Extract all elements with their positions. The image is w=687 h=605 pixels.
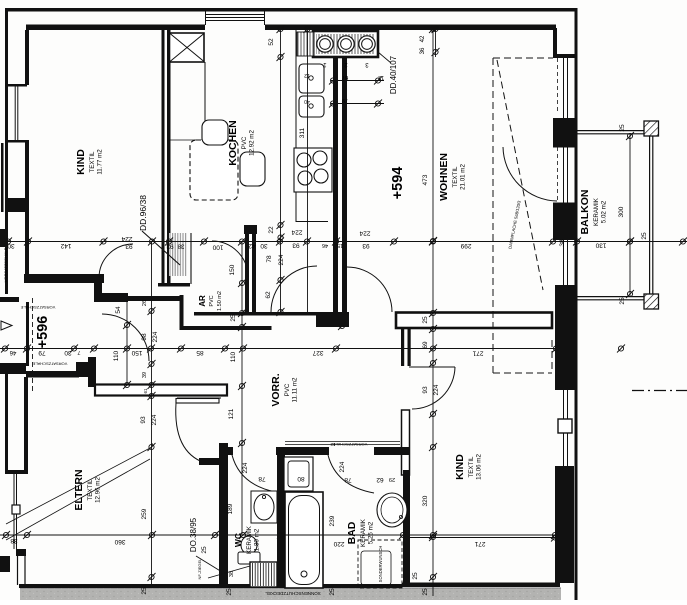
svg-text:26: 26 [142,300,148,306]
svg-text:30: 30 [64,349,72,356]
svg-text:13.06 m2: 13.06 m2 [476,454,483,480]
svg-text:TEXTIL: TEXTIL [87,479,94,501]
svg-text:TEXTIL: TEXTIL [89,151,96,173]
svg-text:DD.96/38: DD.96/38 [138,195,148,231]
svg-text:46: 46 [9,349,16,355]
svg-text:271: 271 [474,540,485,547]
svg-text:38: 38 [177,243,184,249]
svg-text:+596: +596 [35,316,51,349]
svg-text:25: 25 [641,232,648,240]
svg-text:NF-ZIEGEL: NF-ZIEGEL [197,558,202,580]
svg-text:52: 52 [268,38,275,46]
svg-text:WC: WC [233,533,243,547]
svg-text:224: 224 [339,461,346,472]
svg-text:79: 79 [38,349,46,356]
svg-text:KERAMIK: KERAMIK [360,518,367,547]
svg-text:5.26 m2: 5.26 m2 [368,521,375,544]
svg-text:BALKON: BALKON [579,190,591,235]
svg-text:PVC: PVC [209,295,215,306]
svg-text:25: 25 [422,316,429,324]
svg-text:150: 150 [229,264,236,275]
svg-text:300: 300 [618,206,625,217]
svg-text:259: 259 [141,508,148,519]
svg-text:25: 25 [412,572,419,580]
svg-text:142: 142 [60,242,71,249]
svg-text:1.50 m2: 1.50 m2 [217,291,223,311]
svg-text:AR: AR [198,295,207,307]
svg-text:BAD: BAD [346,521,358,544]
svg-text:38: 38 [10,537,18,544]
svg-text:40: 40 [304,98,310,104]
svg-text:SONDERWUNSCH: SONDERWUNSCH [378,546,383,583]
svg-text:61: 61 [143,388,148,394]
svg-text:79: 79 [341,97,348,103]
svg-text:15: 15 [337,242,343,248]
svg-text:25: 25 [329,588,336,596]
svg-text:25: 25 [422,588,429,596]
svg-text:VORSATZSCHALE: VORSATZSCHALE [3,247,8,282]
svg-text:39: 39 [142,372,148,378]
svg-text:DD.40/107: DD.40/107 [389,55,398,94]
svg-text:SONNENSCHUTZDECKEL: SONNENSCHUTZDECKEL [265,591,321,596]
svg-text:KIND: KIND [454,454,466,480]
svg-text:25: 25 [141,587,148,595]
svg-text:121: 121 [228,408,235,419]
svg-text:54: 54 [115,306,122,314]
svg-text:189: 189 [227,503,234,514]
svg-text:224: 224 [291,229,302,236]
svg-text:224: 224 [242,462,249,473]
svg-text:100: 100 [212,244,223,251]
svg-text:KOCHEN: KOCHEN [227,120,239,166]
svg-text:224: 224 [152,331,159,342]
svg-text:KIND: KIND [75,149,87,175]
svg-text:+594: +594 [390,167,406,200]
svg-text:150: 150 [131,349,142,356]
svg-text:42: 42 [420,35,426,42]
svg-text:30: 30 [7,242,15,249]
svg-text:473: 473 [422,174,429,185]
svg-text:TEXTIL: TEXTIL [452,166,459,188]
svg-text:DO.38/95: DO.38/95 [189,517,198,552]
svg-text:78: 78 [344,476,352,483]
svg-text:12: 12 [378,74,384,80]
svg-text:VORR.: VORR. [270,373,282,406]
svg-text:38: 38 [229,571,235,577]
svg-text:62: 62 [376,476,384,483]
svg-text:25: 25 [226,588,233,596]
svg-text:69: 69 [422,341,429,349]
svg-text:46: 46 [322,242,328,248]
svg-text:36: 36 [420,47,426,54]
svg-text:80: 80 [297,475,305,482]
svg-text:271: 271 [472,350,483,357]
svg-text:93: 93 [140,416,147,424]
svg-text:PVC: PVC [284,383,291,396]
svg-text:25: 25 [230,314,237,322]
svg-text:224: 224 [359,230,370,237]
svg-text:360: 360 [114,538,125,545]
svg-text:29: 29 [389,476,395,482]
svg-text:VORSATZSCHALE: VORSATZSCHALE [332,442,367,447]
svg-text:224: 224 [278,254,285,265]
svg-text:TEXTIL: TEXTIL [468,456,475,478]
svg-text:42: 42 [248,242,256,249]
svg-text:25: 25 [619,297,626,305]
svg-text:130: 130 [595,242,606,249]
svg-text:5.02 m2: 5.02 m2 [601,200,608,223]
svg-text:110: 110 [230,351,237,362]
svg-text:93: 93 [292,242,300,249]
svg-text:311: 311 [299,127,306,138]
svg-text:224: 224 [121,235,132,242]
svg-text:78: 78 [258,475,266,482]
svg-text:93: 93 [362,242,370,249]
svg-text:98: 98 [141,333,148,341]
svg-text:KERAMIK: KERAMIK [593,197,600,226]
svg-text:327: 327 [312,349,323,356]
svg-text:320: 320 [422,495,429,506]
svg-text:93: 93 [125,243,133,250]
svg-text:11.11 m2: 11.11 m2 [292,377,299,402]
svg-text:25: 25 [619,124,626,132]
svg-text:WOHNEN: WOHNEN [438,153,450,201]
svg-text:299: 299 [460,242,471,249]
svg-text:110: 110 [113,350,120,361]
svg-text:239: 239 [329,515,336,526]
svg-text:85: 85 [196,349,204,356]
svg-text:224: 224 [433,384,440,395]
svg-text:12: 12 [304,72,310,78]
svg-text:38: 38 [559,239,566,247]
svg-text:67: 67 [341,74,348,80]
svg-text:93: 93 [166,243,174,250]
svg-text:7: 7 [77,349,80,355]
svg-text:30: 30 [260,242,268,249]
svg-text:VORSATZSCHALE: VORSATZSCHALE [32,362,67,367]
svg-text:12.96 m2: 12.96 m2 [95,477,102,503]
svg-text:62: 62 [265,291,272,299]
svg-text:21.01 m2: 21.01 m2 [460,164,467,190]
svg-text:22: 22 [268,226,275,234]
svg-text:KERAMIK: KERAMIK [246,525,253,554]
svg-text:12.92 m2: 12.92 m2 [249,130,256,156]
svg-text:PVC: PVC [241,136,248,149]
svg-text:78: 78 [266,255,273,263]
svg-text:224: 224 [151,414,158,425]
svg-text:11.77 m2: 11.77 m2 [97,149,104,175]
svg-text:93: 93 [422,386,429,394]
svg-text:1.80 m2: 1.80 m2 [254,528,261,551]
svg-text:220: 220 [333,540,344,547]
svg-text:VORSATZSCHALE: VORSATZSCHALE [20,305,55,310]
svg-text:25: 25 [201,546,208,554]
svg-text:ELTERN: ELTERN [73,469,85,510]
